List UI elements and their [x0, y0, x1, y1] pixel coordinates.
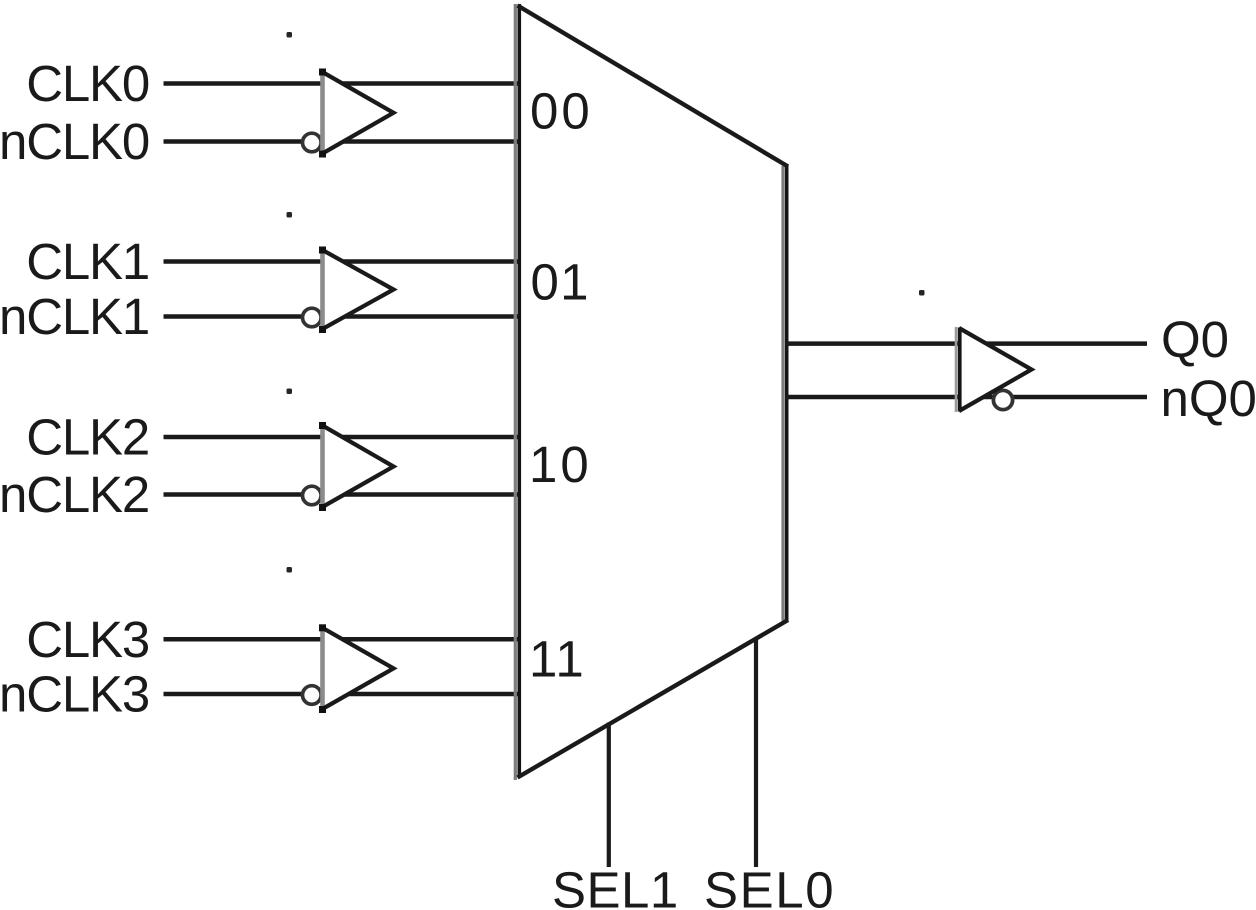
svg-text:SEL1: SEL1: [552, 862, 679, 910]
dot artifact 3: [287, 389, 293, 395]
bubble U6 inverting output: [993, 390, 1012, 409]
wire nCLK1 input: [164, 314, 522, 319]
wire CLK2 input: [164, 435, 522, 440]
dot artifact 4: [287, 567, 293, 573]
wire nCLK2 input: [164, 492, 522, 497]
wire SEL0: [754, 639, 758, 867]
dot artifact 5: [919, 290, 925, 296]
wire Q0 output: [785, 341, 1147, 346]
wire nCLK0 input: [164, 139, 522, 144]
svg-text:nCLK1: nCLK1: [0, 288, 149, 345]
svg-text:Q0: Q0: [1161, 311, 1229, 368]
svg-text:01: 01: [531, 253, 590, 310]
wire CLK0 input: [164, 81, 522, 86]
dot artifact 1: [287, 32, 293, 38]
wire SEL1: [607, 723, 611, 868]
wire CLK1 input: [164, 259, 522, 264]
dot artifact 2: [287, 212, 293, 218]
bubble U2 inverting input: [303, 308, 322, 327]
svg-text:CLK2: CLK2: [26, 409, 149, 466]
bubble U3 inverting input: [303, 486, 322, 505]
buffer U6 body: [956, 327, 1032, 412]
bubble U1 inverting input: [303, 133, 322, 152]
svg-text:11: 11: [529, 630, 586, 687]
svg-text:SEL0: SEL0: [704, 862, 835, 910]
svg-text:10: 10: [529, 436, 592, 493]
svg-text:nCLK0: nCLK0: [0, 113, 149, 170]
svg-text:CLK1: CLK1: [26, 233, 149, 290]
svg-text:nCLK3: nCLK3: [0, 666, 149, 723]
buffer U4 body: [319, 624, 394, 713]
svg-text:nQ0: nQ0: [1161, 370, 1256, 427]
buffer U3 body: [319, 422, 394, 511]
svg-text:nCLK2: nCLK2: [0, 466, 149, 523]
mux U5 body: [515, 4, 788, 780]
svg-text:CLK0: CLK0: [26, 55, 149, 112]
wire nCLK3 input: [164, 692, 522, 697]
wire CLK3 input: [164, 637, 522, 642]
buffer U1 body: [319, 69, 394, 158]
svg-text:CLK3: CLK3: [26, 611, 149, 668]
svg-text:00: 00: [530, 83, 593, 140]
buffer U2 body: [319, 247, 394, 334]
bubble U4 inverting input: [303, 686, 322, 705]
wire nQ0 output: [785, 395, 1147, 400]
